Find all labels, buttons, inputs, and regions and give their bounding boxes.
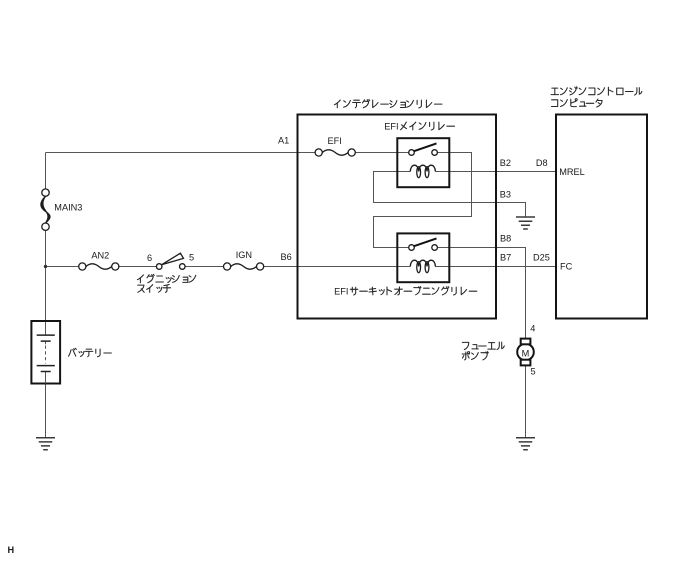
svg-text:MAIN3: MAIN3 [54, 203, 82, 213]
svg-text:B2: B2 [500, 158, 511, 168]
svg-text:AN2: AN2 [91, 251, 109, 261]
svg-text:FC: FC [560, 262, 573, 272]
svg-text:A1: A1 [278, 136, 289, 146]
svg-text:B7: B7 [500, 253, 511, 263]
svg-text:EFI: EFI [328, 136, 342, 146]
svg-text:EFI: EFI [334, 287, 348, 297]
svg-text:5: 5 [531, 367, 536, 377]
svg-text:D8: D8 [536, 158, 548, 168]
svg-text:MREL: MREL [559, 167, 585, 177]
svg-text:6: 6 [147, 253, 152, 263]
svg-text:B6: B6 [281, 252, 292, 262]
svg-text:D25: D25 [533, 253, 550, 263]
svg-text:B8: B8 [500, 234, 511, 244]
svg-text:IGN: IGN [236, 250, 252, 260]
svg-text:M: M [522, 348, 530, 358]
svg-text:4: 4 [530, 323, 535, 333]
svg-text:H: H [8, 545, 15, 555]
svg-text:EFI: EFI [384, 122, 398, 132]
svg-text:5: 5 [189, 253, 194, 263]
svg-text:B3: B3 [500, 190, 511, 200]
